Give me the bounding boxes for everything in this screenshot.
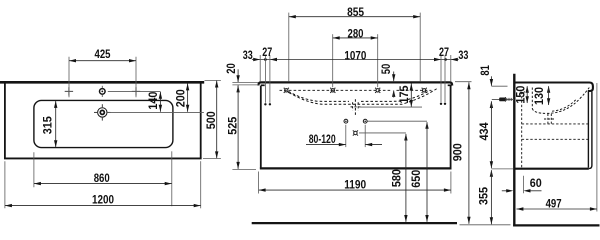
svg-text:315: 315 — [42, 116, 54, 135]
dimension 855 — [289, 7, 420, 81]
svg-text:81: 81 — [480, 65, 492, 76]
hidden bowl side profile — [532, 87, 589, 113]
dimension 860 — [34, 151, 172, 206]
svg-text:200: 200 — [176, 89, 188, 107]
svg-text:80-120: 80-120 — [309, 134, 336, 146]
washbasin top view - left edge — [4, 82, 6, 158]
dimension 315 — [42, 101, 57, 147]
tap hole position cross left — [65, 87, 73, 95]
vanity side - bottom — [515, 168, 589, 170]
svg-text:27: 27 — [262, 47, 272, 59]
leader and dimension 650 — [368, 121, 429, 222]
tap hole symbol left — [284, 88, 289, 93]
svg-text:525: 525 — [228, 116, 240, 135]
leader and dimension 580 — [359, 133, 408, 222]
label 27 right — [439, 47, 449, 59]
svg-text:425: 425 — [95, 49, 112, 61]
dimension 200 — [176, 83, 190, 111]
svg-text:50: 50 — [381, 64, 393, 75]
dimension 50 — [381, 64, 396, 98]
dimension 60 — [502, 176, 542, 194]
hidden tap hole centerline — [280, 89, 432, 91]
chain dimension line 33 27 1070 27 33 — [252, 58, 459, 61]
svg-text:497: 497 — [546, 199, 562, 211]
svg-text:1200: 1200 — [92, 194, 114, 206]
svg-text:33: 33 — [243, 50, 253, 62]
vanity unit front - right side — [450, 86, 452, 169]
drain leader line — [358, 106, 422, 108]
washbasin front view - right lip — [448, 84, 452, 86]
dimension 525 — [228, 85, 256, 169]
floor line under front view — [252, 222, 457, 224]
washbasin front view - left lip — [261, 84, 265, 86]
label 27 left — [262, 47, 272, 59]
vanity unit front - bottom — [260, 167, 452, 169]
svg-text:900: 900 — [453, 143, 465, 161]
drain outlet symbol — [353, 130, 358, 135]
svg-text:33: 33 — [458, 50, 468, 62]
tap hole centerline horizontal — [108, 90, 161, 92]
svg-text:860: 860 — [94, 173, 110, 185]
tap hole pilot circle center — [100, 86, 106, 97]
dimension 81 — [480, 65, 507, 109]
vanity side - front inner — [587, 92, 589, 168]
tap hole centerline to right edge — [109, 111, 204, 113]
svg-text:355: 355 — [479, 186, 491, 205]
hidden bowl outline lower — [289, 88, 438, 105]
svg-text:150: 150 — [516, 86, 528, 104]
washbasin top view - right edge — [200, 82, 202, 158]
label 33 left — [243, 50, 253, 62]
dimension 425 — [69, 49, 136, 97]
dimension 175 — [399, 84, 413, 107]
dimension 355 — [479, 170, 493, 225]
svg-text:855: 855 — [347, 7, 365, 19]
chain dimension extension lines — [260, 55, 451, 106]
vanity unit front - left side — [260, 86, 262, 169]
svg-text:140: 140 — [148, 92, 160, 110]
dimension 80-120 — [306, 125, 382, 147]
floor line under side view — [513, 224, 599, 226]
dimension 280 — [333, 29, 378, 87]
fixing screw — [492, 97, 514, 102]
wall outlet hole right — [363, 119, 367, 123]
dimension 900 — [453, 82, 472, 224]
vanity side - hidden drawer lines — [522, 92, 589, 168]
wall line — [513, 74, 515, 227]
svg-text:500: 500 — [206, 111, 218, 129]
svg-text:580: 580 — [392, 169, 404, 187]
svg-text:60: 60 — [530, 178, 542, 190]
dimension 150 — [516, 86, 529, 104]
washbasin front view - top slab — [258, 82, 452, 85]
svg-text:175: 175 — [399, 85, 411, 104]
hidden drain — [351, 99, 361, 115]
washbasin top view - front edge — [4, 157, 202, 159]
svg-text:434: 434 — [479, 122, 491, 141]
dimension 1190 — [259, 172, 451, 194]
dimension 434 — [479, 101, 493, 168]
washbasin top view - back edge — [0, 81, 204, 84]
tap hole position cross right — [132, 87, 140, 95]
tap hole symbol right — [375, 88, 380, 93]
hidden drain side — [544, 114, 555, 125]
svg-text:1070: 1070 — [344, 50, 366, 62]
svg-text:280: 280 — [348, 29, 364, 41]
vanity side - front outer — [589, 92, 592, 169]
dimension 497 — [516, 83, 597, 212]
floor extension line — [460, 224, 511, 226]
wall outlet hole left — [344, 119, 348, 123]
hidden bowl outline upper — [289, 92, 429, 102]
tap hole symbol far right — [422, 88, 427, 93]
svg-text:650: 650 — [411, 170, 423, 188]
dimension 1200 — [5, 161, 201, 208]
svg-text:130: 130 — [534, 87, 546, 105]
tap hole symbol center — [330, 88, 335, 93]
svg-text:1190: 1190 — [344, 179, 366, 191]
dimension 20 — [226, 63, 259, 92]
washbasin side profile — [514, 83, 593, 92]
main tap hole — [94, 104, 111, 120]
label 1070 — [344, 50, 366, 62]
svg-text:27: 27 — [439, 47, 449, 59]
extension line cabinet bottom side — [491, 168, 513, 170]
label 33 right — [458, 50, 468, 62]
dimension 130 — [534, 86, 550, 105]
svg-text:20: 20 — [226, 63, 238, 74]
hidden fixing hole — [521, 89, 525, 93]
washbasin top view - inner bowl outline — [34, 100, 173, 147]
dimension 500 — [203, 81, 221, 159]
dimension 140 — [148, 92, 162, 112]
